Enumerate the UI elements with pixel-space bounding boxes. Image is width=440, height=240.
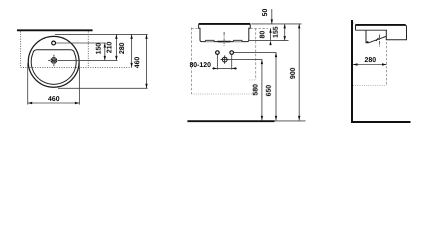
svg-text:50: 50 (262, 9, 269, 17)
80-120 dimension line with outside arrows (189, 62, 236, 70)
dotted countertop rectangle right vertical (87, 32, 89, 68)
basin side profile outline (356, 25, 407, 43)
vertical centre line through front view (223, 32, 225, 46)
dimension 50 (262, 9, 273, 24)
80-120 extension line right (231, 55, 233, 70)
water supply connection right (230, 51, 234, 55)
wall line (side view) (351, 20, 353, 123)
basin back apex extension line (55, 33, 148, 35)
drain leader line (60, 59, 118, 61)
basin front outline (199, 24, 251, 42)
right foot notch (233, 40, 243, 41)
basin inner rim circle with flat deck chord (31, 50, 76, 85)
bottom dimension 460 extension lines (28, 63, 80, 105)
dash from wall to basin top (353, 22, 356, 24)
svg-text:280: 280 (119, 42, 126, 54)
dimension 150 (tap hole to drain) (96, 43, 106, 61)
dimension 280 (side view) (353, 57, 387, 66)
dimension 80 (259, 28, 271, 45)
rim top extension line (251, 23, 301, 25)
dotted countertop front edge horizontal (21, 66, 132, 68)
left foot notch (205, 40, 215, 41)
body bottom extension line (249, 40, 288, 42)
svg-text:900: 900 (290, 67, 297, 79)
drain centre line (side view) (379, 35, 381, 48)
svg-text:155: 155 (273, 26, 280, 38)
dimension 580 line (253, 60, 264, 121)
svg-text:150: 150 (96, 43, 103, 55)
80-120 extension line left (216, 55, 218, 70)
siphon tick across diagonal (376, 38, 378, 41)
dimension 460 vertical (basin depth) (134, 34, 148, 88)
wall line (top view) (17, 29, 93, 31)
svg-text:80-120: 80-120 (189, 62, 211, 69)
dashed stub from rim step to left dashed line (191, 27, 198, 29)
dimension 650 line (266, 53, 278, 121)
svg-text:580: 580 (253, 84, 260, 96)
supply leader line to 650 (234, 52, 277, 54)
dotted countertop rectangle left vertical (20, 32, 22, 68)
dotted stub at right dashed line bottom (250, 79, 256, 81)
dotted drain height line (353, 84, 387, 86)
dashed installation rectangle: right vertical (255, 28, 257, 80)
svg-text:280: 280 (365, 57, 377, 64)
tap hole (52, 41, 56, 45)
dotted installation bottom line (191, 93, 255, 95)
floor line (front view) (187, 120, 305, 122)
bottom dimension 460 (28, 96, 80, 104)
water supply connection left (216, 51, 220, 55)
svg-text:80: 80 (259, 31, 266, 39)
dashed installation rectangle: left vertical (190, 28, 192, 95)
drain boss at bottom centre (217, 41, 231, 43)
basin outer circle (28, 36, 79, 87)
floor line (side view) (351, 121, 411, 123)
svg-text:460: 460 (134, 57, 141, 69)
rim step dashed extension (right) (250, 27, 268, 29)
dimension 900 line (290, 24, 301, 121)
svg-text:460: 460 (48, 96, 60, 103)
drain fitting (top view) (48, 55, 59, 66)
svg-text:650: 650 (266, 85, 273, 97)
svg-text:210: 210 (106, 41, 113, 53)
siphon outlet dot (367, 41, 369, 43)
tap hole leader line (56, 42, 106, 44)
waste outlet crosshair (221, 55, 229, 63)
waste leader line to 580 (229, 59, 262, 61)
dashed drain axis extension (386, 42, 388, 85)
dimension 280 (apex to counter front) (119, 34, 133, 67)
basin front extension line (bottom of circle) (58, 87, 148, 89)
dimension 210 (apex to drain) (106, 34, 117, 60)
dimension 155 (273, 24, 286, 41)
